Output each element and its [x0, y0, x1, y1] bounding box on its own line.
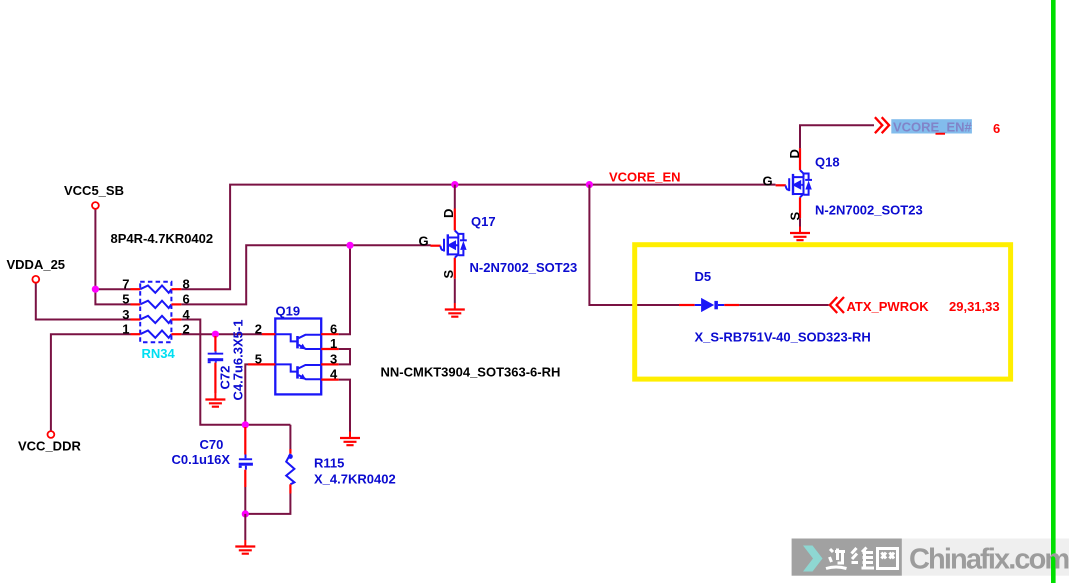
svg-text:C4.7u6.3X5-1: C4.7u6.3X5-1 — [231, 320, 246, 401]
wire VCC_DDR to RN34 pin 1 — [51, 334, 131, 431]
svg-text:4: 4 — [183, 307, 191, 322]
svg-text:Chinafix.com: Chinafix.com — [909, 544, 1068, 576]
ground Q19 pin 4 — [340, 432, 360, 446]
svg-text:1: 1 — [330, 336, 337, 351]
svg-text:8P4R-4.7KR0402: 8P4R-4.7KR0402 — [111, 231, 214, 246]
wire VCC5_SB vertical drop to RN34 pins 7/5 — [95, 209, 130, 304]
diode D5 — [679, 298, 739, 312]
svg-text:D: D — [441, 209, 456, 218]
svg-text:8: 8 — [183, 277, 190, 292]
svg-text:2: 2 — [255, 321, 262, 336]
svg-text:G: G — [419, 233, 429, 248]
svg-text:G: G — [763, 173, 773, 188]
ground C72 — [205, 393, 225, 407]
svg-text:6: 6 — [330, 321, 337, 336]
svg-text:D: D — [787, 149, 802, 158]
ground Q18 source — [790, 227, 810, 241]
wire Q17 drain to rail — [454, 185, 456, 209]
power symbol VDDA_25 — [32, 276, 39, 283]
off-page connector VCORE_EN# — [875, 117, 889, 133]
wire VDDA_25 to RN34 pin 3 — [36, 283, 131, 320]
transistor pair Q19 — [248, 319, 339, 395]
wire D5 cathode to ATX_PWROK port — [739, 304, 829, 306]
junction node C70/R115 top — [242, 421, 249, 428]
svg-text:VCC5_SB: VCC5_SB — [64, 183, 124, 198]
svg-text:ATX_PWROK: ATX_PWROK — [847, 299, 930, 314]
wire Q18 drain up to VCORE_EN# port — [800, 125, 874, 148]
svg-text:Q17: Q17 — [471, 214, 496, 229]
svg-text:C70: C70 — [200, 437, 224, 452]
off-page connector ATX_PWROK — [830, 297, 844, 313]
svg-text:7: 7 — [122, 277, 129, 292]
junction node gate net / Q19 pin 6 — [346, 242, 353, 249]
selection highlight VCORE_EN# — [891, 119, 972, 133]
svg-text:4: 4 — [330, 367, 338, 382]
svg-text:N-2N7002_SOT23: N-2N7002_SOT23 — [815, 203, 923, 218]
svg-text:Q19: Q19 — [276, 304, 301, 319]
svg-text:N-2N7002_SOT23: N-2N7002_SOT23 — [470, 260, 578, 275]
svg-text:29,31,33: 29,31,33 — [949, 299, 1000, 314]
wire node to ground — [244, 514, 246, 540]
capacitor C70 — [239, 427, 253, 487]
svg-text:X_S-RB751V-40_SOD323-RH: X_S-RB751V-40_SOD323-RH — [695, 330, 871, 345]
svg-text:3: 3 — [122, 307, 129, 322]
svg-text:VCORE_EN: VCORE_EN — [609, 170, 681, 185]
svg-text:RN34: RN34 — [142, 346, 176, 361]
svg-text:3: 3 — [330, 352, 337, 367]
svg-text:X_4.7KR0402: X_4.7KR0402 — [314, 471, 396, 486]
wire Q19 pin 5 to C70 node — [245, 364, 248, 424]
svg-text:VCC_DDR: VCC_DDR — [18, 439, 81, 454]
junction node rail / VCORE_EN branch — [586, 181, 593, 188]
wire C70 bottom to node — [244, 487, 246, 514]
ground Q17 source — [445, 303, 465, 317]
svg-text:2: 2 — [183, 322, 190, 337]
svg-text:6: 6 — [183, 292, 190, 307]
power symbol VCC_DDR — [48, 431, 55, 438]
power symbol VCC5_SB — [92, 202, 99, 209]
junction node VCC5_SB / pin7 — [92, 286, 99, 293]
wire R115 bottom to node — [245, 425, 290, 514]
wire RN34 pin 4 down to C70/R115 node — [181, 320, 290, 425]
wire RN34 pin 8 up to VCC rail — [181, 185, 775, 290]
svg-text:Q18: Q18 — [815, 155, 840, 170]
wire RN34 pin 2 to Q19 pin 2 — [181, 333, 262, 335]
svg-text:5: 5 — [122, 292, 129, 307]
wire Q17 source to ground — [454, 279, 456, 303]
wire RN34 pin 6 to Q17 gate — [181, 245, 430, 304]
wire Q18 source to ground — [799, 218, 801, 226]
resistor network RN34 — [131, 282, 182, 342]
wire VCORE_EN branch down to D5 — [589, 185, 679, 305]
transistor Q17 N-MOSFET — [430, 209, 466, 279]
svg-text:6: 6 — [993, 121, 1000, 136]
ground C70/R115 — [235, 540, 255, 554]
red underscore remnant — [936, 133, 946, 135]
svg-text:S: S — [441, 270, 456, 279]
junction node C70/R115 bottom — [242, 510, 249, 517]
svg-text:1: 1 — [122, 322, 129, 337]
wire Q19 pin 4 to ground — [339, 380, 350, 432]
wire Q19 pin 6 up to Q17 gate net — [339, 245, 350, 334]
svg-text:C0.1u16X: C0.1u16X — [172, 452, 231, 467]
yellow highlight box — [635, 245, 1011, 379]
svg-text:NN-CMKT3904_SOT363-6-RH: NN-CMKT3904_SOT363-6-RH — [381, 364, 561, 379]
resistor R115 — [286, 449, 294, 494]
svg-text:VDDA_25: VDDA_25 — [7, 257, 66, 272]
svg-text:R115: R115 — [314, 455, 344, 470]
svg-text:D5: D5 — [695, 269, 712, 284]
wire Q19 pin 1 to pin 3 — [339, 349, 350, 364]
junction node rail / Q17 drain — [451, 181, 458, 188]
svg-text:VCORE_EN#: VCORE_EN# — [893, 119, 973, 134]
capacitor C72 — [208, 336, 224, 393]
transistor Q18 N-MOSFET — [776, 148, 812, 218]
svg-text:5: 5 — [255, 352, 262, 367]
junction node RN pin2 / C72 — [212, 331, 219, 338]
